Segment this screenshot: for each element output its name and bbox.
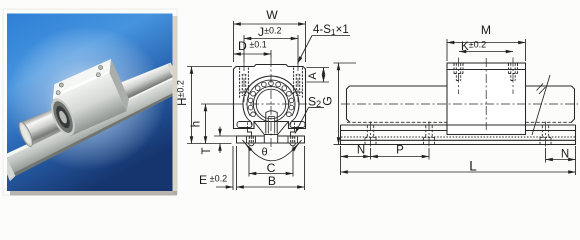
shaft end cap inner <box>19 124 32 145</box>
side centerlines <box>341 58 578 149</box>
dim P <box>371 156 430 158</box>
dim L <box>341 171 576 173</box>
bearing block front face <box>53 73 127 137</box>
svg-text:W: W <box>266 8 278 22</box>
bore boss arc <box>243 76 299 116</box>
dim M <box>447 42 526 44</box>
leader 4-S1x1 <box>312 35 350 37</box>
bearing end rim <box>46 95 80 139</box>
front counterbored hole hidden lines right <box>294 68 303 100</box>
side rail holes hidden <box>365 126 551 145</box>
svg-text:K±0.2: K±0.2 <box>461 40 486 54</box>
foot screw marks <box>249 137 294 143</box>
dim N right <box>546 159 576 161</box>
bearing end face ring <box>49 98 77 135</box>
svg-text:H±0.2: H±0.2 <box>176 80 190 106</box>
dim A <box>307 67 330 69</box>
support rail front face <box>4 75 187 176</box>
shaft end cap left <box>17 120 35 148</box>
rail base plate <box>237 136 305 143</box>
svg-text:D ±0.1: D ±0.1 <box>238 39 267 53</box>
side block outline <box>447 63 526 135</box>
dim C <box>249 173 293 175</box>
dim W <box>234 23 306 25</box>
dim N left <box>341 156 371 158</box>
shaft end cap right <box>166 62 177 77</box>
svg-text:A: A <box>307 72 319 80</box>
web flare left <box>254 122 264 135</box>
product photo group <box>0 37 189 181</box>
leg screw hidden lines <box>248 123 295 128</box>
support rail base edge <box>10 88 187 176</box>
dim B <box>237 186 305 188</box>
dim h <box>201 103 234 105</box>
side block hole mouth ticks <box>454 63 518 66</box>
leader S2 <box>309 107 325 109</box>
shaft bore circle <box>256 89 286 119</box>
dim G <box>334 62 357 64</box>
block leg seal recess right <box>290 122 305 128</box>
shaft <box>20 57 179 147</box>
svg-text:4-S1×1: 4-S1×1 <box>313 24 349 37</box>
side shaft outline <box>347 86 575 122</box>
dim K <box>459 51 513 53</box>
web flare right <box>278 122 289 135</box>
base internal seams <box>247 136 298 143</box>
side rail outline <box>341 125 576 145</box>
svg-text:h: h <box>191 121 203 127</box>
svg-text:G: G <box>321 96 335 105</box>
side block holes hidden <box>454 64 518 81</box>
rib base box <box>264 135 277 144</box>
bearing inner ring circle <box>253 86 288 121</box>
svg-text:C: C <box>267 161 276 175</box>
dim theta arc <box>247 145 298 161</box>
support rail top lip <box>4 75 178 157</box>
block leg seal recess left <box>237 122 252 128</box>
side block bottom body line <box>447 124 526 126</box>
dim E <box>232 146 234 190</box>
svg-text:P: P <box>396 145 404 157</box>
dim D <box>234 53 272 55</box>
leg step boss right <box>291 128 295 136</box>
bearing block right side face <box>105 59 133 111</box>
svg-text:L: L <box>469 159 477 174</box>
bearing block top face <box>48 59 116 98</box>
rail web slot in bore <box>254 111 289 135</box>
photo blue background <box>7 14 173 192</box>
bearing outer ring arc <box>247 80 295 116</box>
dim J <box>244 38 298 40</box>
dim T <box>214 135 236 137</box>
side block top step line <box>447 69 526 71</box>
photo glow <box>6 26 166 170</box>
svg-text:N: N <box>357 145 365 157</box>
shaft hidden bottom line <box>347 121 574 123</box>
svg-text:E ±0.2: E ±0.2 <box>199 173 227 187</box>
svg-text:N: N <box>561 149 569 161</box>
front block outline <box>234 65 306 129</box>
svg-text:T: T <box>201 147 213 154</box>
bearing balls <box>248 81 294 117</box>
photo drop shadow right <box>173 16 178 194</box>
dim H <box>187 66 232 68</box>
screw head arcs under base <box>249 143 296 146</box>
side rail dotted line <box>341 136 575 138</box>
photo drop shadow bottom <box>10 191 177 196</box>
svg-text:S2: S2 <box>308 95 321 110</box>
svg-text:B: B <box>268 174 276 188</box>
oblique hole leader <box>532 75 550 135</box>
photo card background <box>3 9 177 195</box>
boss fillet right <box>291 116 296 122</box>
svg-text:θ: θ <box>261 147 267 159</box>
front centerlines <box>234 58 307 150</box>
front counterbored hole hidden lines left <box>240 68 249 100</box>
block screws <box>59 82 64 87</box>
bearing block top face shading <box>52 70 111 98</box>
leg step boss left <box>248 128 252 136</box>
svg-text:J±0.2: J±0.2 <box>258 25 282 39</box>
boss fillet left <box>246 116 251 122</box>
support rail end face <box>0 154 16 181</box>
svg-text:M: M <box>481 23 491 37</box>
